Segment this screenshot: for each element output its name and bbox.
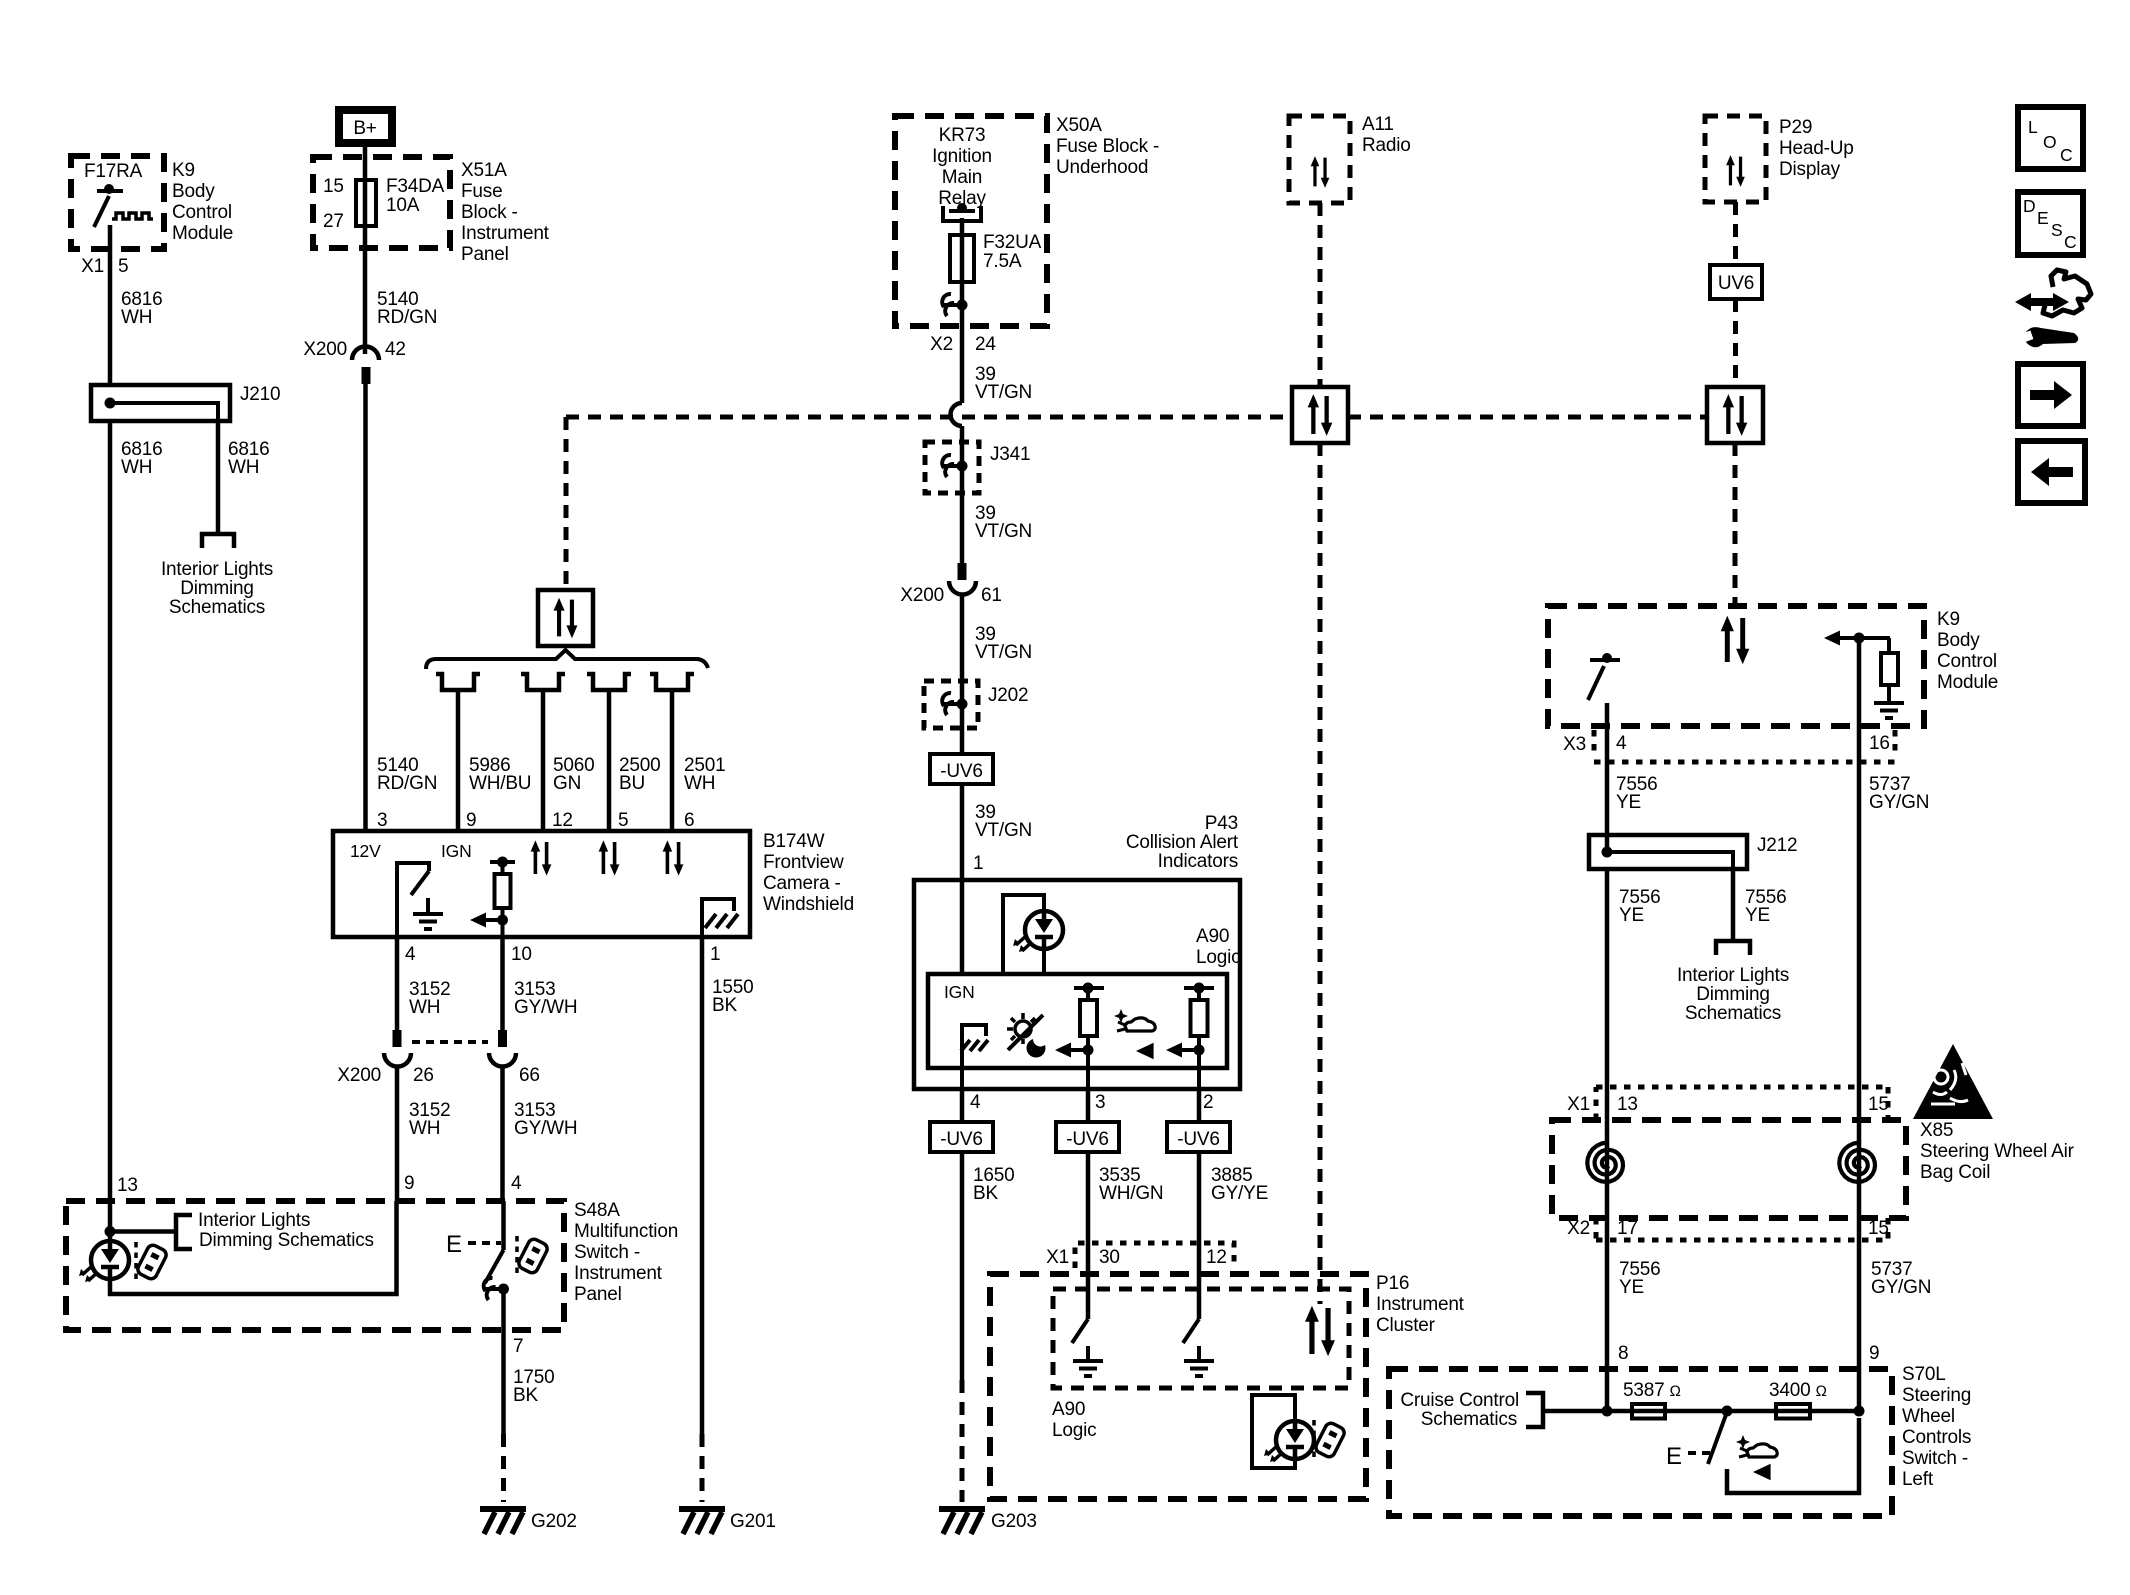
svg-text:Multifunction: Multifunction <box>574 1221 678 1242</box>
svg-text:Wheel: Wheel <box>1902 1406 1955 1427</box>
svg-text:Indicators: Indicators <box>1158 851 1238 872</box>
svg-text:X50A: X50A <box>1056 115 1102 136</box>
svg-text:13: 13 <box>1617 1094 1638 1115</box>
svg-text:4: 4 <box>1616 733 1627 754</box>
svg-text:F34DA: F34DA <box>386 176 445 197</box>
svg-text:B+: B+ <box>353 118 376 139</box>
svg-text:Panel: Panel <box>574 1284 622 1305</box>
svg-text:P16: P16 <box>1376 1273 1409 1294</box>
svg-text:Schematics: Schematics <box>169 597 265 618</box>
svg-text:Logic: Logic <box>1196 947 1240 968</box>
pin label X2 24 <box>930 334 996 355</box>
ground G202 <box>480 1509 577 1534</box>
svg-text:P29: P29 <box>1779 117 1812 138</box>
svg-text:D: D <box>2023 196 2035 216</box>
wire 6816 WH J210 to S48A pin 13 <box>110 421 162 1201</box>
wire 1650 BK pin 4 with -UV6 <box>930 1089 1014 1502</box>
svg-text:BK: BK <box>513 1385 538 1406</box>
svg-text:Instrument: Instrument <box>574 1263 663 1284</box>
junction dot and wire to bracket (S48A) <box>105 1201 177 1241</box>
wire P43 pin1 entry to A90 <box>960 880 965 974</box>
svg-text:WH/GN: WH/GN <box>1099 1183 1163 1204</box>
svg-text:G202: G202 <box>531 1511 577 1532</box>
off-page connector Interior Lights Dimming Schematics (J212) <box>1677 941 1789 1024</box>
switch inside K9 <box>1588 653 1620 726</box>
svg-text:X2: X2 <box>1567 1218 1590 1239</box>
coil left (X85) <box>1587 1143 1623 1187</box>
svg-text:12: 12 <box>552 810 573 831</box>
svg-text:Cluster: Cluster <box>1376 1315 1436 1336</box>
splice J210 <box>91 384 280 421</box>
svg-text:A11: A11 <box>1362 114 1394 135</box>
svg-text:Schematics: Schematics <box>1685 1003 1781 1024</box>
ground G203 <box>939 1509 1037 1534</box>
svg-text:Fuse Block -: Fuse Block - <box>1056 136 1159 157</box>
svg-text:Switch -: Switch - <box>1902 1448 1968 1469</box>
svg-text:24: 24 <box>975 334 996 355</box>
camera internal chassis ground (pin 1) <box>702 899 738 937</box>
wire 6816 WH F17RA to J210 <box>110 225 162 385</box>
svg-text:4: 4 <box>405 944 416 965</box>
dashed wire arrow box to K9 <box>1733 443 1738 606</box>
switch to ground (P16 pin 30) <box>1072 1243 1103 1376</box>
relay contact F17RA <box>94 184 153 227</box>
off-page bracket Cruise Control Schematics (S70L) <box>1400 1390 1607 1430</box>
connector row X1 (P16) <box>1046 1243 1234 1268</box>
svg-text:Logic: Logic <box>1052 1420 1096 1441</box>
svg-text:15: 15 <box>1868 1218 1889 1239</box>
camera internal data arrows pin 5 <box>599 840 620 875</box>
svg-text:2: 2 <box>1203 1092 1213 1113</box>
svg-text:4: 4 <box>970 1092 981 1113</box>
svg-text:Steering: Steering <box>1902 1385 1971 1406</box>
dashed wire UV6 to arrow box <box>1733 299 1738 387</box>
logic block A90 (P43) <box>928 926 1240 1068</box>
svg-text:1: 1 <box>710 944 720 965</box>
inline connector X200 pin 66 <box>489 1030 540 1086</box>
data arrows (P16) <box>1305 1306 1335 1357</box>
svg-text:16: 16 <box>1869 733 1890 754</box>
wire 5737 GY/GN K9 to X85 <box>1859 638 1929 1143</box>
svg-text:1: 1 <box>973 853 983 874</box>
svg-text:BK: BK <box>973 1183 998 1204</box>
wire 7556 YE J212 to X85 <box>1607 869 1660 1143</box>
svg-text:Block -: Block - <box>461 202 518 223</box>
svg-text:Fuse: Fuse <box>461 181 502 202</box>
wire 5140 RD/GN X200 to camera pin 3 <box>366 384 438 831</box>
svg-text:27: 27 <box>323 211 344 232</box>
svg-text:RD/GN: RD/GN <box>377 773 437 794</box>
off-page bracket Interior Lights Dimming Schematics (S48A) <box>176 1210 374 1251</box>
dashed wire A11 to arrow box <box>1318 203 1323 387</box>
svg-text:X85: X85 <box>1920 1120 1953 1141</box>
svg-text:K9: K9 <box>1937 609 1960 630</box>
option box UV6 <box>1710 265 1762 299</box>
data arrows inside K9 <box>1721 616 1750 664</box>
svg-text:WH/BU: WH/BU <box>469 773 531 794</box>
svg-text:Left: Left <box>1902 1469 1934 1490</box>
svg-text:Radio: Radio <box>1362 135 1411 156</box>
branch wire 6816 WH to interior lights dimming <box>218 421 269 534</box>
svg-text:12V: 12V <box>350 841 381 861</box>
head-up display P29 dashed box <box>1705 116 1854 202</box>
svg-text:Body: Body <box>1937 630 1980 651</box>
resistor with arrow (A90 pin 3) <box>1055 983 1104 1090</box>
fuse block X51A dashed box <box>313 157 550 265</box>
svg-text:E: E <box>2037 208 2048 228</box>
resistor 3400 ohm (S70L) <box>1769 1380 1827 1419</box>
svg-text:Dimming: Dimming <box>1696 984 1770 1005</box>
svg-text:Interior Lights: Interior Lights <box>1677 965 1789 986</box>
svg-text:GY/YE: GY/YE <box>1211 1183 1268 1204</box>
svg-text:X200: X200 <box>303 339 347 360</box>
wire 3885 GY/YE pin 2 with -UV6 <box>1167 1089 1268 1243</box>
svg-text:10A: 10A <box>386 195 420 216</box>
legend icon repair instructions (arrow and wrench) <box>2015 270 2091 347</box>
resistor 5387 ohm (S70L) <box>1623 1380 1681 1419</box>
instrument cluster P16 dashed box <box>990 1273 1465 1499</box>
multifunction switch S48A dashed box <box>66 1200 678 1330</box>
svg-text:-UV6: -UV6 <box>1177 1129 1220 1150</box>
warning triangle airbag <box>1913 1044 1993 1119</box>
svg-text:P43: P43 <box>1205 813 1238 834</box>
svg-text:S70L: S70L <box>1902 1364 1946 1385</box>
svg-text:5387 Ω: 5387 Ω <box>1623 1380 1681 1401</box>
svg-text:E: E <box>446 1231 462 1258</box>
camera B174W Frontview Camera - Windshield box <box>333 831 854 937</box>
logic block A90 (P16) dashed box <box>1052 1289 1349 1441</box>
collision icon (S70L) <box>1736 1435 1777 1480</box>
svg-text:Switch -: Switch - <box>574 1242 640 1263</box>
svg-text:5: 5 <box>118 256 128 277</box>
data link arrow box (camera branch) <box>538 590 593 646</box>
svg-text:VT/GN: VT/GN <box>975 521 1032 542</box>
svg-text:X1: X1 <box>1046 1247 1069 1268</box>
svg-text:66: 66 <box>519 1065 540 1086</box>
svg-text:GY/WH: GY/WH <box>514 1118 577 1139</box>
connector row X3 (K9) <box>1563 730 1895 762</box>
svg-text:Main: Main <box>942 167 982 188</box>
inline connector X200 pin 26 <box>337 1030 488 1086</box>
svg-text:13: 13 <box>117 1175 138 1196</box>
fuse F34DA 10A <box>356 157 445 248</box>
svg-text:VT/GN: VT/GN <box>975 382 1032 403</box>
wire 3152 WH camera pin 4 to X200 <box>397 937 450 1030</box>
data link arrow box (radio) <box>1292 387 1348 443</box>
svg-text:Dimming Schematics: Dimming Schematics <box>199 1230 374 1251</box>
svg-text:Schematics: Schematics <box>1421 1409 1517 1430</box>
svg-text:J202: J202 <box>988 685 1028 706</box>
svg-text:Bag Coil: Bag Coil <box>1920 1162 1990 1183</box>
legend icon arrow left <box>2018 441 2085 503</box>
svg-text:Interior Lights: Interior Lights <box>161 559 273 580</box>
svg-text:7.5A: 7.5A <box>983 251 1022 272</box>
svg-text:Control: Control <box>172 202 232 223</box>
connector row X2 (X85) <box>1567 1218 1889 1240</box>
branch wire 7556 YE to interior lights (J212) <box>1733 869 1786 941</box>
coil right (X85) <box>1839 1143 1875 1187</box>
svg-text:WH: WH <box>409 997 440 1018</box>
svg-text:5: 5 <box>618 810 628 831</box>
svg-text:Instrument: Instrument <box>461 223 550 244</box>
svg-text:9: 9 <box>1869 1343 1879 1364</box>
svg-text:WH: WH <box>121 457 152 478</box>
svg-text:7: 7 <box>513 1336 523 1357</box>
fuse block X50A dashed box <box>895 115 1159 326</box>
svg-text:26: 26 <box>413 1065 434 1086</box>
svg-text:J212: J212 <box>1757 835 1797 856</box>
svg-text:BK: BK <box>712 995 737 1016</box>
svg-text:Ignition: Ignition <box>932 146 992 167</box>
svg-text:J341: J341 <box>990 444 1030 465</box>
dashed wire radio box to P16 <box>1318 443 1323 1304</box>
wire 3535 WH/GN pin 3 with -UV6 <box>1056 1089 1163 1243</box>
auto dimming icon (A90) <box>1007 1013 1045 1058</box>
chassis ground (A90 pin 4) <box>961 1025 988 1089</box>
wire through X50A <box>960 218 965 326</box>
svg-text:GY/WH: GY/WH <box>514 997 577 1018</box>
dashed wire bus to camera data box <box>564 417 569 590</box>
svg-text:Dimming: Dimming <box>180 578 254 599</box>
wire 1750 BK to G202 <box>504 1336 555 1502</box>
LED assembly (P16) <box>1252 1395 1346 1468</box>
wire 3153 GY/WH camera pin 10 to X200 <box>503 937 578 1030</box>
wire 3152 WH X200 to S48A pin 9 <box>397 1066 450 1201</box>
S48A internal wire LED to pin 9 <box>110 1201 397 1294</box>
camera internal data arrows pin 6 <box>663 840 684 875</box>
svg-text:Cruise Control: Cruise Control <box>1400 1390 1519 1411</box>
svg-text:A90: A90 <box>1196 926 1229 947</box>
svg-text:VT/GN: VT/GN <box>975 820 1032 841</box>
wire 39 VT/GN X200 to -UV6 <box>962 594 1032 754</box>
inline connector X200 pin 42 <box>303 339 405 384</box>
dashed data bus horizontal <box>566 415 1707 420</box>
connector bracket camera pin 9 <box>436 674 531 831</box>
svg-text:RD/GN: RD/GN <box>377 307 437 328</box>
svg-text:WH: WH <box>684 773 715 794</box>
svg-text:-UV6: -UV6 <box>1066 1129 1109 1150</box>
wire 39 VT/GN with bus hop <box>951 326 1033 563</box>
connector row X1 (X85) <box>1567 1087 1889 1120</box>
svg-text:E: E <box>1666 1443 1682 1470</box>
svg-text:9: 9 <box>404 1173 414 1194</box>
svg-text:6: 6 <box>684 810 694 831</box>
steering wheel controls S70L dashed box <box>1389 1364 1971 1516</box>
switch to ground (P16 pin 12) <box>1183 1243 1214 1376</box>
wire below hook to pin 7 (S48A) <box>504 1289 524 1357</box>
ground G201 <box>679 1509 776 1534</box>
collision icon (A90) <box>1114 1009 1155 1059</box>
svg-text:-UV6: -UV6 <box>940 1129 983 1150</box>
svg-text:Frontview: Frontview <box>763 852 844 873</box>
svg-text:J210: J210 <box>240 384 280 405</box>
svg-text:YE: YE <box>1616 792 1641 813</box>
svg-text:VT/GN: VT/GN <box>975 642 1032 663</box>
svg-text:IGN: IGN <box>944 982 975 1002</box>
svg-text:-UV6: -UV6 <box>940 761 983 782</box>
svg-text:42: 42 <box>385 339 406 360</box>
svg-text:BU: BU <box>619 773 645 794</box>
svg-text:Head-Up: Head-Up <box>1779 138 1854 159</box>
splice J212 <box>1589 835 1797 869</box>
svg-text:F32UA: F32UA <box>983 232 1042 253</box>
svg-text:10: 10 <box>511 944 532 965</box>
svg-text:C: C <box>2060 145 2072 165</box>
connector bracket camera pin 6 <box>650 674 725 831</box>
svg-text:61: 61 <box>981 585 1002 606</box>
svg-text:9: 9 <box>466 810 476 831</box>
resistor with arrow (A90 pin 2) <box>1166 983 1214 1090</box>
svg-text:3400 Ω: 3400 Ω <box>1769 1380 1827 1401</box>
svg-text:Underhood: Underhood <box>1056 157 1148 178</box>
svg-text:UV6: UV6 <box>1718 273 1754 294</box>
svg-text:X3: X3 <box>1563 734 1586 755</box>
svg-text:X200: X200 <box>900 585 944 606</box>
splice J341 <box>925 442 1030 493</box>
bus brace <box>426 650 708 669</box>
svg-text:Controls: Controls <box>1902 1427 1971 1448</box>
svg-text:X200: X200 <box>337 1065 381 1086</box>
svg-text:GY/GN: GY/GN <box>1869 792 1929 813</box>
connector bracket camera pin 5 <box>587 674 660 831</box>
svg-text:4: 4 <box>511 1173 522 1194</box>
svg-text:YE: YE <box>1619 905 1644 926</box>
svg-text:15: 15 <box>323 176 344 197</box>
S48A switch with E actuator <box>446 1201 504 1283</box>
svg-text:IGN: IGN <box>441 841 472 861</box>
svg-text:Camera -: Camera - <box>763 873 841 894</box>
pin label X1 5 (F17RA) <box>81 256 128 277</box>
wire 3153 GY/WH X200 to S48A pin 4 <box>503 1066 578 1201</box>
svg-text:15: 15 <box>1868 1094 1889 1115</box>
svg-text:F17RA: F17RA <box>84 161 143 182</box>
svg-text:S48A: S48A <box>574 1200 620 1221</box>
svg-text:YE: YE <box>1619 1277 1644 1298</box>
svg-text:C: C <box>2064 232 2076 252</box>
body control module K9 dashed box (right) <box>1548 606 1998 726</box>
switch with E actuator (S70L) <box>1666 1412 1859 1493</box>
dashed wire P29 to UV6 <box>1733 202 1738 265</box>
svg-text:WH: WH <box>121 307 152 328</box>
svg-text:Interior Lights: Interior Lights <box>198 1210 310 1231</box>
svg-text:30: 30 <box>1099 1247 1120 1268</box>
svg-text:X51A: X51A <box>461 160 507 181</box>
wire 39 VT/GN to P43 pin 1 <box>962 784 1032 880</box>
power feed B+ <box>339 110 392 157</box>
relay KR73 contact <box>943 203 981 221</box>
svg-text:Module: Module <box>172 223 233 244</box>
svg-text:3: 3 <box>377 810 387 831</box>
wire 7556 YE K9 to J212 <box>1607 726 1657 852</box>
connector bracket camera pin 12 <box>521 674 594 831</box>
svg-text:X1: X1 <box>1567 1094 1590 1115</box>
svg-text:L: L <box>2028 117 2038 137</box>
svg-text:X2: X2 <box>930 334 953 355</box>
airbag coil X85 dashed box <box>1552 1120 2075 1218</box>
LED loop (P43) <box>1003 895 1063 974</box>
radio A11 dashed box <box>1289 114 1411 203</box>
splice J202 <box>924 681 1028 728</box>
dashed car icon (S48A LED) <box>136 1242 168 1282</box>
collision alert indicators P43 box <box>914 813 1240 1089</box>
wire 5140 RD/GN fuse to X200 <box>365 248 437 354</box>
svg-text:Control: Control <box>1937 651 1997 672</box>
svg-text:A90: A90 <box>1052 1399 1085 1420</box>
relay KR73 Ignition Main Relay label <box>932 125 992 209</box>
svg-text:WH: WH <box>228 457 259 478</box>
svg-text:Module: Module <box>1937 672 1998 693</box>
svg-text:Panel: Panel <box>461 244 509 265</box>
svg-text:Body: Body <box>172 181 215 202</box>
svg-text:Instrument: Instrument <box>1376 1294 1465 1315</box>
splice hook contact (S48A) <box>484 1278 509 1300</box>
svg-text:17: 17 <box>1617 1218 1638 1239</box>
legend icon LOC <box>2018 107 2083 169</box>
svg-text:8: 8 <box>1618 1343 1628 1364</box>
camera internal data arrows pin 12 <box>531 840 552 875</box>
svg-text:12: 12 <box>1206 1247 1227 1268</box>
fuse F32UA 7.5A <box>950 232 1042 282</box>
legend icon DESC <box>2018 192 2083 255</box>
option box -UV6 <box>930 754 993 784</box>
svg-text:O: O <box>2043 132 2056 152</box>
svg-text:K9: K9 <box>172 160 195 181</box>
pull-up resistor and ground inside K9 <box>1824 631 1904 719</box>
svg-text:YE: YE <box>1745 905 1770 926</box>
svg-text:Windshield: Windshield <box>763 894 854 915</box>
camera internal switch to ground <box>397 863 443 937</box>
svg-text:G203: G203 <box>991 1511 1037 1532</box>
svg-text:GN: GN <box>553 773 581 794</box>
legend icon arrow right <box>2018 364 2083 426</box>
svg-text:Display: Display <box>1779 159 1841 180</box>
wire 7556 YE X85 to S70L pin 8 <box>1607 1186 1660 1411</box>
off-page connector Interior Lights Dimming Schematics (J210) <box>161 534 273 618</box>
svg-text:KR73: KR73 <box>939 125 986 146</box>
svg-text:Steering Wheel Air: Steering Wheel Air <box>1920 1141 2075 1162</box>
svg-text:WH: WH <box>409 1118 440 1139</box>
LED interior lights dimming (S48A) <box>79 1241 129 1282</box>
svg-text:Collision Alert: Collision Alert <box>1126 832 1239 853</box>
splice hook in X50A <box>942 294 967 316</box>
data link arrow box (HUD) <box>1707 387 1763 443</box>
camera internal resistor (IGN) <box>470 857 515 938</box>
svg-text:B174W: B174W <box>763 831 825 852</box>
svg-text:GY/GN: GY/GN <box>1871 1277 1931 1298</box>
svg-text:G201: G201 <box>730 1511 776 1532</box>
dashed car icon (S48A switch) <box>517 1236 549 1276</box>
wire 1550 BK camera pin 1 to G201 <box>702 937 753 1502</box>
wire 5737 GY/GN X85 to S70L pin 9 <box>1859 1186 1931 1411</box>
svg-text:3: 3 <box>1095 1092 1105 1113</box>
svg-text:X1: X1 <box>81 256 104 277</box>
inline connector X200 pin 61 <box>900 563 1001 606</box>
module F17RA Body Control Module dashed box <box>71 156 233 249</box>
svg-text:S: S <box>2051 220 2062 240</box>
main wire S70L pins 8 to 9 <box>1602 1406 1865 1417</box>
